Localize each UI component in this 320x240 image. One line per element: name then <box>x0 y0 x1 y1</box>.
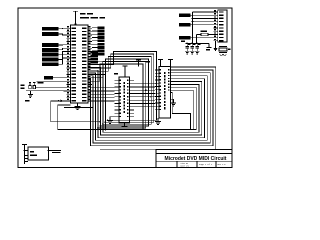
title block <box>156 150 232 168</box>
net label LB5 <box>42 58 67 66</box>
net label RA6 <box>92 43 104 46</box>
U3 ref text <box>146 61 150 63</box>
wire U1-U2 d1 <box>92 90 115 92</box>
U3 right pin numbers <box>168 69 170 91</box>
crystal Y1 <box>219 47 231 56</box>
wire loop1 <box>51 101 102 123</box>
power VCC U2 <box>123 66 128 77</box>
net label J-B <box>179 23 214 26</box>
wire bus A2 <box>92 57 151 125</box>
wire X1 out <box>48 150 61 154</box>
net label LB1 <box>42 43 67 47</box>
wire bus ring7 <box>106 90 194 129</box>
net label J-A <box>179 14 214 17</box>
net label LA2 <box>42 32 67 36</box>
ground U2b <box>107 117 114 124</box>
wire U2-U3 d4 <box>134 96 155 98</box>
net label RA5 <box>92 40 104 43</box>
net label RA2 <box>92 30 104 33</box>
J1 pin numbers <box>214 10 216 40</box>
U3 right pin stubs <box>171 70 175 90</box>
IC U1 body <box>71 25 89 103</box>
ground U1 <box>75 103 81 110</box>
U3 gnd stub right <box>171 99 177 106</box>
wire U2-U3 d1 <box>134 86 155 88</box>
U1 ref text <box>80 13 93 15</box>
wire U2-U3 d0 <box>134 83 157 85</box>
IC U3 body <box>159 66 171 118</box>
power VCC U3b <box>136 60 141 67</box>
net label LB2 <box>42 48 67 52</box>
ground U3 <box>155 118 161 125</box>
capacitor C1 with ground <box>185 43 190 54</box>
net label LA1 <box>42 27 67 31</box>
capacitor C2 with ground <box>190 43 195 54</box>
net label RB1 <box>91 51 99 54</box>
net label LB4 <box>42 55 67 62</box>
wire U1-U2 d0 <box>92 87 115 89</box>
U3 left pin stubs <box>155 70 159 110</box>
net label RB2 <box>91 54 99 57</box>
U3 left pin numbers <box>160 69 162 110</box>
U1 right pin numbers <box>89 26 91 100</box>
wire U1-U2 d2 <box>92 94 115 96</box>
U3 inner rect route <box>171 93 191 130</box>
wire extra1 <box>64 107 94 109</box>
power VCC U3c <box>158 60 163 67</box>
U1 right pin stubs <box>88 28 92 101</box>
U2 value text <box>124 82 125 113</box>
net label RB4 <box>91 61 99 64</box>
connector J1 body <box>218 10 227 42</box>
wire bus A4 <box>92 62 146 129</box>
U2 left pin numbers <box>120 80 122 118</box>
net label RA3 <box>92 33 104 36</box>
capacitor C4 <box>206 43 212 50</box>
net label LC1 <box>44 76 67 80</box>
switch S1 cluster and ground <box>21 85 41 102</box>
svg-text:Microdet DVD MIDI Circuit: Microdet DVD MIDI Circuit <box>165 156 227 162</box>
wire U2-U3 d2 <box>134 89 155 91</box>
diode D2 <box>33 82 36 89</box>
net label RB3 <box>91 58 99 61</box>
wire U2-U3 d5 <box>134 99 155 101</box>
U1 left pin stubs <box>67 28 71 101</box>
net label RA1 <box>92 26 104 29</box>
U1 right pin names <box>82 28 87 102</box>
ground arrow J1 <box>213 41 217 51</box>
diode D1 <box>29 82 32 89</box>
wire bus ring1 <box>88 73 210 143</box>
border frame <box>18 8 232 167</box>
wire bus ring2 <box>88 73 207 140</box>
wire U2-U3 d7 <box>134 106 155 108</box>
U1 left pin numbers <box>67 26 69 100</box>
U2 right pin numbers <box>127 80 129 118</box>
junction arrow <box>58 100 64 103</box>
net label LB3 <box>42 51 67 56</box>
J1 pin names <box>219 11 224 41</box>
wire S3 to U1 <box>40 90 67 92</box>
ground U2 <box>122 123 128 130</box>
wire bus ring3 <box>88 70 205 138</box>
wire J1 pin3 <box>192 18 214 20</box>
U3 value text <box>164 72 165 109</box>
power VCC U1 <box>73 11 78 25</box>
wire S2 to U1 <box>36 87 67 89</box>
svg-text:Page 1 of 1: Page 1 of 1 <box>199 163 213 166</box>
wire bus A0 <box>92 52 157 122</box>
oscillator X1 <box>22 145 48 164</box>
U2 right pin stubs <box>130 80 135 116</box>
net label RA7 <box>92 46 104 49</box>
U1 left pin names <box>72 28 77 102</box>
wire loop2 <box>58 105 107 131</box>
capacitor C3 with ground <box>195 43 200 54</box>
U2 ref text <box>114 73 118 75</box>
wire cap rail <box>186 43 210 45</box>
resistor R1 <box>197 31 214 44</box>
wire bus A5 <box>92 64 143 131</box>
power VCC U3 <box>168 60 173 67</box>
IC U2 body <box>119 77 130 123</box>
wire bus ring0 <box>88 70 213 146</box>
wire U2-U3 d6 <box>134 103 157 105</box>
wire U1-U2 d4 <box>90 100 115 102</box>
wire U1-U2 d3 <box>92 97 115 99</box>
wire S1 to U1 <box>37 81 67 83</box>
wire bus ring8 <box>100 67 216 150</box>
vertical net J1 <box>193 12 214 43</box>
wire bus A3 <box>92 59 148 127</box>
net label J-C <box>179 36 214 42</box>
wire bus A1 <box>92 54 154 123</box>
svg-text:Date 1/1: Date 1/1 <box>181 165 190 167</box>
net label RA9 <box>92 53 104 56</box>
wire bus ring6 <box>88 62 196 130</box>
J1 pin stubs <box>214 12 218 41</box>
net label RA4 <box>92 36 104 39</box>
net label RA8 <box>92 49 104 52</box>
svg-text:Rev 1.0: Rev 1.0 <box>218 163 227 166</box>
wire J1 pin4 <box>192 21 214 23</box>
U2 left pin stubs <box>115 80 120 116</box>
U1 value text PIC16F877 <box>80 17 105 19</box>
wire U2-U3 d3 <box>134 93 155 95</box>
wire bus ring5 <box>88 65 199 133</box>
wire bus ring4 <box>88 67 202 135</box>
